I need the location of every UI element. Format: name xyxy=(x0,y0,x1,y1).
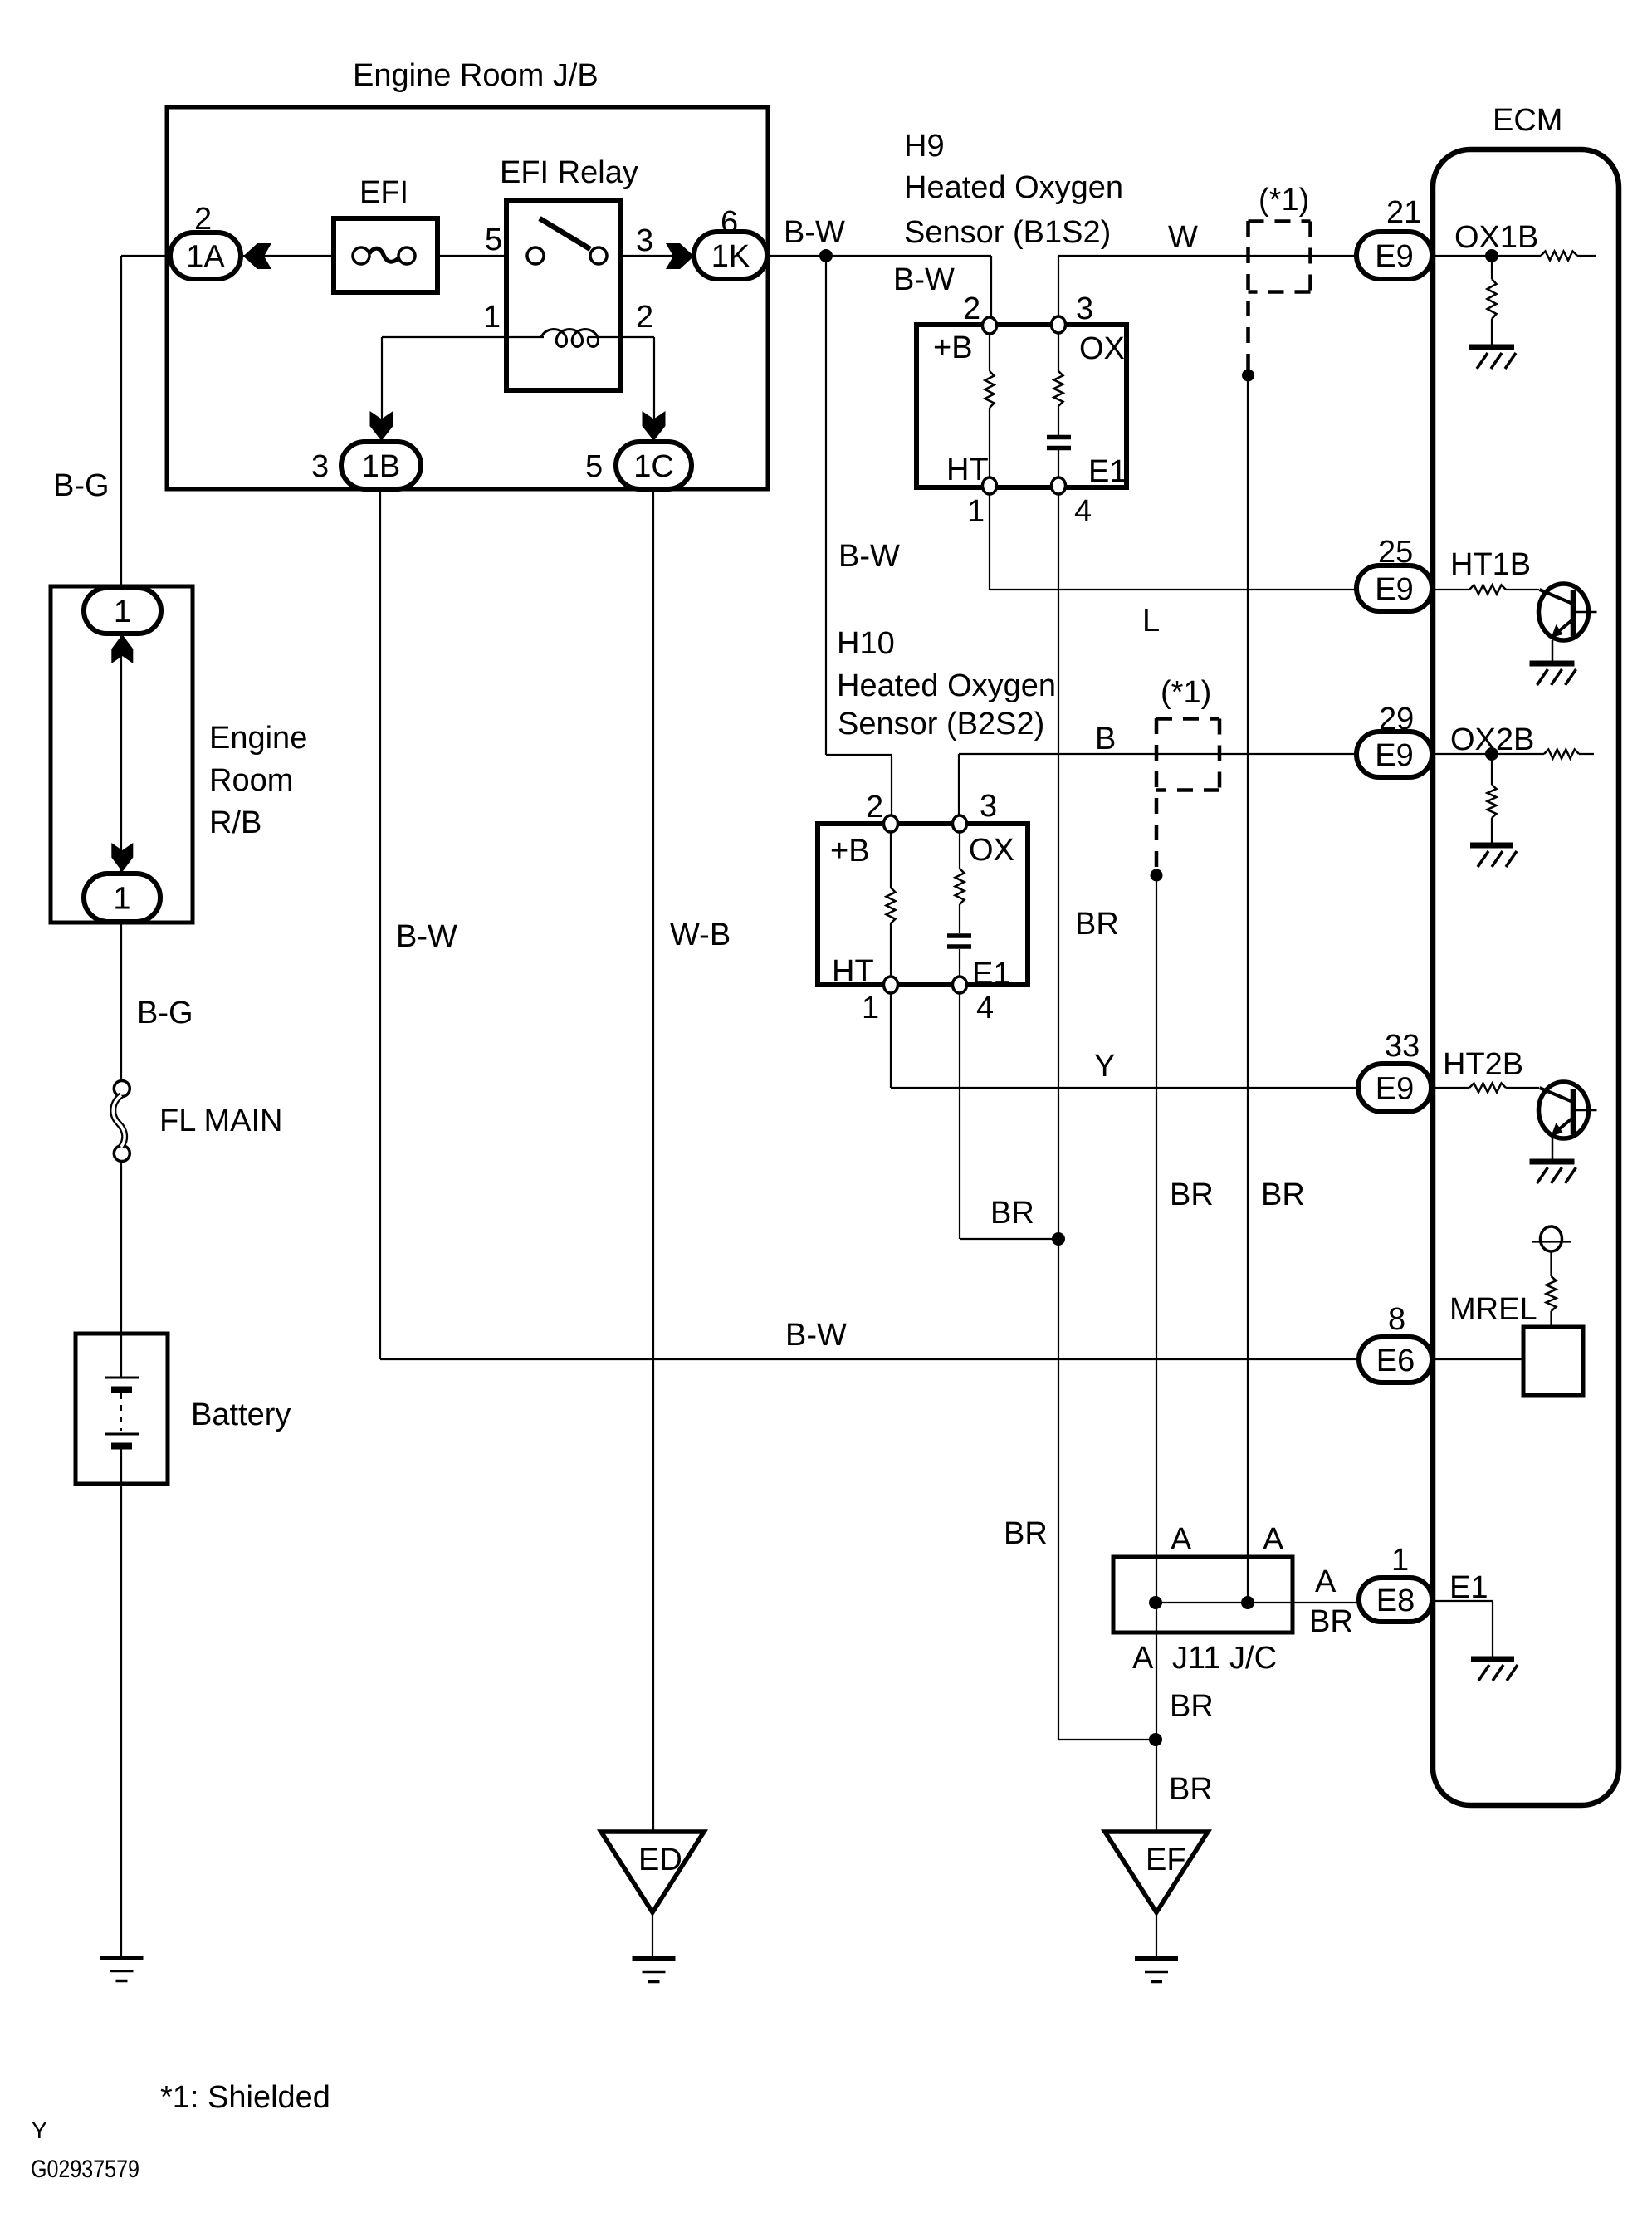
svg-text:J11 J/C: J11 J/C xyxy=(1172,1641,1277,1676)
svg-text:4: 4 xyxy=(1074,494,1092,529)
svg-text:A: A xyxy=(1315,1564,1337,1599)
svg-text:1: 1 xyxy=(1391,1543,1409,1578)
svg-text:29: 29 xyxy=(1379,702,1414,737)
svg-text:4: 4 xyxy=(976,991,994,1025)
svg-text:B-W: B-W xyxy=(838,539,900,574)
svg-text:1K: 1K xyxy=(711,239,750,274)
svg-text:1: 1 xyxy=(862,991,879,1025)
svg-text:EFI Relay: EFI Relay xyxy=(500,155,638,190)
svg-text:A: A xyxy=(1263,1522,1284,1557)
svg-text:HT: HT xyxy=(946,453,989,487)
svg-text:EF: EF xyxy=(1146,1843,1186,1877)
svg-text:6: 6 xyxy=(721,205,738,240)
svg-text:BR: BR xyxy=(1261,1177,1305,1212)
svg-text:1B: 1B xyxy=(362,449,400,484)
svg-text:1C: 1C xyxy=(633,449,674,484)
svg-text:Y: Y xyxy=(1094,1049,1115,1084)
svg-text:ED: ED xyxy=(638,1843,682,1877)
svg-text:Y: Y xyxy=(32,2117,47,2143)
svg-text:1: 1 xyxy=(113,882,130,917)
svg-text:L: L xyxy=(1142,604,1160,639)
svg-text:3: 3 xyxy=(1076,291,1093,326)
svg-text:8: 8 xyxy=(1388,1302,1405,1337)
svg-text:H10: H10 xyxy=(837,626,895,661)
svg-text:BR: BR xyxy=(1170,1177,1214,1212)
svg-text:HT: HT xyxy=(832,954,874,989)
svg-text:BR: BR xyxy=(1075,907,1119,942)
svg-text:21: 21 xyxy=(1386,195,1421,230)
svg-text:Engine: Engine xyxy=(209,721,307,756)
svg-text:BR: BR xyxy=(1169,1772,1213,1807)
svg-text:HT1B: HT1B xyxy=(1450,547,1531,582)
svg-text:W-B: W-B xyxy=(670,918,731,952)
svg-text:2: 2 xyxy=(866,790,883,825)
svg-text:(*1): (*1) xyxy=(1161,675,1211,710)
svg-text:B-G: B-G xyxy=(137,996,193,1030)
svg-text:B: B xyxy=(1095,722,1116,756)
svg-text:*1: Shielded: *1: Shielded xyxy=(160,2080,330,2115)
svg-text:OX1B: OX1B xyxy=(1454,220,1538,255)
svg-text:(*1): (*1) xyxy=(1259,183,1309,218)
svg-text:H9: H9 xyxy=(904,129,945,164)
svg-text:1: 1 xyxy=(483,300,501,335)
svg-text:+B: +B xyxy=(933,330,973,365)
svg-text:Heated Oxygen: Heated Oxygen xyxy=(837,668,1056,703)
svg-text:5: 5 xyxy=(485,223,502,257)
svg-text:A: A xyxy=(1171,1522,1192,1557)
svg-text:1: 1 xyxy=(114,595,131,629)
svg-text:1A: 1A xyxy=(186,240,225,275)
svg-text:Sensor (B1S2): Sensor (B1S2) xyxy=(904,215,1111,250)
svg-text:BR: BR xyxy=(1309,1604,1353,1639)
svg-text:B-W: B-W xyxy=(785,1318,847,1353)
svg-text:E1: E1 xyxy=(1449,1570,1488,1605)
svg-text:ECM: ECM xyxy=(1493,103,1562,138)
svg-text:R/B: R/B xyxy=(209,805,261,840)
svg-text:OX: OX xyxy=(969,833,1014,868)
svg-text:HT2B: HT2B xyxy=(1443,1047,1523,1082)
svg-text:E8: E8 xyxy=(1376,1584,1415,1618)
svg-text:E6: E6 xyxy=(1376,1344,1415,1378)
svg-text:MREL: MREL xyxy=(1449,1292,1537,1327)
svg-text:B-G: B-G xyxy=(53,468,110,503)
svg-text:+B: +B xyxy=(830,834,870,869)
svg-text:Battery: Battery xyxy=(191,1398,291,1432)
svg-text:G02937579: G02937579 xyxy=(31,2156,139,2183)
svg-text:FL MAIN: FL MAIN xyxy=(159,1104,283,1138)
svg-text:Heated Oxygen: Heated Oxygen xyxy=(904,170,1123,205)
svg-text:EFI: EFI xyxy=(359,175,408,210)
svg-text:1: 1 xyxy=(967,494,985,529)
svg-text:B-W: B-W xyxy=(893,262,955,297)
svg-text:3: 3 xyxy=(311,449,329,484)
svg-text:5: 5 xyxy=(585,449,603,484)
svg-text:E9: E9 xyxy=(1376,1072,1414,1107)
svg-text:2: 2 xyxy=(194,202,212,237)
svg-text:A: A xyxy=(1132,1641,1154,1676)
svg-text:Room: Room xyxy=(209,763,293,798)
svg-text:E1: E1 xyxy=(1088,454,1127,489)
svg-text:W: W xyxy=(1168,220,1198,255)
svg-text:BR: BR xyxy=(1170,1689,1214,1724)
svg-text:3: 3 xyxy=(980,789,997,824)
svg-text:E1: E1 xyxy=(972,957,1010,991)
svg-text:E9: E9 xyxy=(1375,738,1413,773)
svg-text:E9: E9 xyxy=(1375,239,1413,274)
svg-text:25: 25 xyxy=(1378,535,1413,570)
svg-text:2: 2 xyxy=(963,291,980,326)
svg-text:B-W: B-W xyxy=(396,919,457,954)
svg-text:33: 33 xyxy=(1385,1029,1420,1064)
svg-text:3: 3 xyxy=(636,223,653,258)
svg-text:Engine Room J/B: Engine Room J/B xyxy=(353,58,599,93)
svg-text:Sensor (B2S2): Sensor (B2S2) xyxy=(838,707,1044,742)
svg-text:2: 2 xyxy=(636,300,653,335)
svg-text:OX: OX xyxy=(1079,331,1125,366)
svg-text:B-W: B-W xyxy=(784,215,845,250)
svg-text:OX2B: OX2B xyxy=(1450,722,1534,757)
svg-text:BR: BR xyxy=(990,1196,1034,1231)
svg-text:BR: BR xyxy=(1004,1516,1048,1551)
svg-text:E9: E9 xyxy=(1375,572,1413,607)
